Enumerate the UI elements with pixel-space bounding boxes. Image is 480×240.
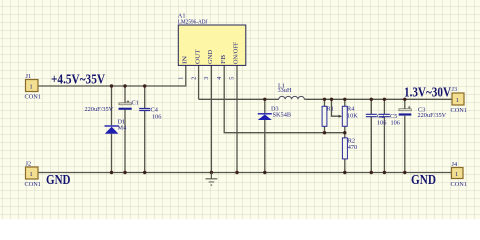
svg-text:CON1: CON1	[25, 94, 41, 101]
wire pin5 ON/OFF down	[236, 65, 238, 172]
svg-text:R1: R1	[327, 105, 334, 112]
wire R2 branch	[344, 133, 346, 173]
connector J4	[452, 168, 464, 179]
svg-text:3: 3	[203, 77, 210, 80]
capacitor C1 electrolytic	[119, 100, 132, 110]
op-amp U1 : regulator IC A1 LM2596-ADJ body	[178, 25, 246, 65]
svg-text:LM2596-ADJ: LM2596-ADJ	[178, 19, 208, 26]
wire D3 branch	[264, 99, 266, 172]
connector J2	[26, 167, 39, 179]
svg-text:+4.5V~35V: +4.5V~35V	[51, 71, 105, 86]
node junction dots ground rail	[110, 171, 407, 174]
resistor R4 potentiometer	[342, 106, 347, 126]
diode D3 symbol	[258, 113, 272, 120]
wire C1 branch	[124, 86, 126, 173]
svg-text:OUT: OUT	[194, 49, 201, 64]
wire C2 branch	[370, 99, 372, 172]
svg-text:1: 1	[30, 84, 33, 91]
connector J1	[26, 80, 39, 92]
wire output rail L1 to J3	[304, 98, 452, 100]
wire input rail J1 to pin1	[38, 65, 186, 86]
diode D1 symbol	[105, 125, 119, 133]
svg-text:R4: R4	[347, 105, 355, 112]
wire D1 branch	[111, 86, 113, 173]
svg-text:10K: 10K	[347, 112, 358, 119]
wire pin4 FB down and right	[224, 65, 345, 132]
wire C5 branch	[383, 99, 385, 172]
svg-text:CON1: CON1	[451, 181, 467, 188]
svg-text:1: 1	[456, 97, 459, 104]
svg-text:1.3V~30V: 1.3V~30V	[404, 84, 451, 99]
svg-text:GND: GND	[411, 172, 436, 187]
svg-text:1: 1	[178, 77, 185, 80]
wire C3 branch	[404, 99, 406, 172]
wire R4 branch	[344, 99, 346, 132]
svg-text:CON1: CON1	[451, 107, 467, 114]
wire pin3 GND down	[210, 65, 212, 172]
capacitor C4	[139, 109, 150, 111]
svg-text:ON/OFF: ON/OFF	[233, 41, 240, 64]
svg-text:C1: C1	[132, 100, 139, 107]
svg-text:1: 1	[30, 171, 33, 178]
wire R4 wiper	[332, 99, 340, 116]
wire R1 branch	[324, 99, 326, 132]
svg-text:1: 1	[455, 171, 458, 178]
potentiometer R4 wiper arrowhead	[339, 115, 343, 118]
svg-text:C4: C4	[151, 107, 159, 114]
svg-text:J2: J2	[26, 161, 32, 168]
wire pin2 OUT down	[198, 65, 200, 99]
svg-text:220uF/35V: 220uF/35V	[418, 112, 447, 119]
svg-text:IN: IN	[182, 55, 189, 64]
svg-text:FB: FB	[220, 55, 227, 64]
svg-text:CON1: CON1	[25, 181, 41, 188]
svg-text:106: 106	[391, 120, 400, 127]
svg-text:SK54B: SK54B	[273, 112, 292, 119]
svg-text:J1: J1	[26, 73, 32, 80]
svg-text:J4: J4	[452, 161, 458, 168]
svg-text:220uF/35V: 220uF/35V	[85, 106, 114, 113]
svg-text:106: 106	[377, 120, 386, 127]
svg-text:33uH: 33uH	[278, 87, 292, 94]
svg-text:GND: GND	[46, 172, 71, 187]
capacitor C2	[366, 114, 377, 116]
resistor R1	[322, 106, 327, 126]
svg-text:M4: M4	[118, 125, 128, 132]
svg-text:470: 470	[348, 144, 357, 151]
node junction dots FB wire	[323, 131, 347, 134]
node junction dots output rail	[263, 98, 406, 101]
svg-text:GND: GND	[207, 50, 214, 64]
inductor L1	[279, 96, 305, 99]
capacitor C5	[379, 114, 390, 116]
ground symbol	[206, 173, 218, 186]
svg-text:J3: J3	[452, 86, 458, 93]
resistor R2	[342, 138, 347, 159]
svg-text:106: 106	[152, 114, 161, 121]
wire output rail pin2 to L1	[199, 98, 279, 100]
node junction dots input rail	[110, 84, 147, 87]
wire ground rail	[38, 172, 452, 174]
svg-text:5: 5	[229, 77, 236, 80]
connector J3	[452, 93, 464, 105]
capacitor C3 electrolytic	[399, 106, 412, 116]
svg-text:2: 2	[190, 77, 197, 80]
wire C4 branch	[144, 86, 146, 173]
